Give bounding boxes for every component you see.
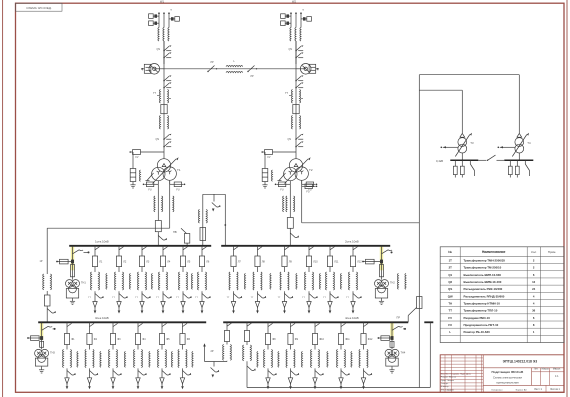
tie disconnector right	[247, 66, 257, 79]
svg-text:Разраб. Иванов: Разраб. Иванов	[441, 377, 457, 379]
svg-text:ЛР: ЛР	[250, 75, 254, 78]
disconnector QS5 W1	[163, 134, 171, 140]
table rows text	[448, 258, 536, 334]
svg-text:Ф10: Ф10	[319, 338, 324, 341]
disconnector QS6 W2	[288, 138, 304, 147]
svg-text:FV: FV	[267, 156, 270, 159]
transfer link bay on bus 2 right	[223, 322, 232, 361]
reserve entry switch	[397, 308, 417, 323]
voltage transformer bay ТН1	[56, 246, 89, 305]
feeder bay Л3 on bus 1	[135, 246, 151, 314]
svg-text:Масса: Масса	[542, 368, 550, 371]
feeder bay Л1 on bus 1	[88, 246, 104, 314]
svg-text:W1: W1	[160, 0, 164, 3]
svg-text:3сек.10кВ: 3сек.10кВ	[95, 316, 109, 320]
svg-text:Утв. Сидоров: Утв. Сидоров	[441, 389, 455, 391]
svg-text:1Т: 1Т	[449, 258, 453, 262]
svg-text:ПВ: ПВ	[173, 230, 177, 234]
top-left stamp box	[16, 3, 63, 11]
svg-text:Q: Q	[317, 67, 319, 71]
feeder bay Ф11 on bus 2	[336, 322, 350, 389]
wire top run to TSN1	[419, 89, 462, 91]
table header	[448, 250, 556, 254]
svg-text:Трансформатор ТМ-250/10: Трансформатор ТМ-250/10	[464, 266, 502, 270]
cable coils upper W2	[285, 90, 303, 104]
tie reactor coils	[226, 60, 243, 73]
svg-text:ТН4: ТН4	[401, 351, 406, 354]
feeder bay Л8 on bus 1	[251, 246, 267, 314]
svg-text:1сек.10кВ: 1сек.10кВ	[95, 240, 109, 244]
LV branch fuses Т2	[275, 180, 318, 191]
series element on riser	[417, 297, 422, 309]
cable CT coils between bays bus2	[77, 352, 352, 368]
busbar stub near title	[424, 321, 433, 323]
wire reserve to bus 2	[429, 322, 431, 387]
highlight PT bay bus2 right	[390, 323, 393, 340]
svg-text:Копировал: Копировал	[492, 390, 504, 392]
neutral grounding resistor W2	[262, 152, 285, 188]
neutral grounding resistor W1	[130, 152, 153, 188]
disconnector QS2 W2	[295, 52, 303, 58]
svg-text:FU: FU	[176, 189, 179, 192]
feeder bay Л11 on bus 1	[323, 246, 339, 314]
svg-text:Q: Q	[141, 67, 143, 71]
0.4kV feeder L1	[453, 160, 457, 177]
svg-text:Трансформатор НТМИ-10: Трансформатор НТМИ-10	[464, 301, 501, 305]
svg-text:FU: FU	[448, 323, 452, 327]
svg-text:ТН2: ТН2	[390, 282, 395, 285]
series element box W1	[161, 105, 167, 114]
feeder bay Л9 on bus 1	[278, 246, 294, 314]
wire riser reserve feed	[418, 75, 420, 388]
busbar section 1 right (10kV)	[221, 240, 390, 246]
bus tie earthing switch	[212, 194, 221, 211]
feeder bay Ф3 on bus 2	[108, 322, 121, 389]
svg-text:ТН: ТН	[448, 301, 452, 305]
wire bottom reserve run	[247, 387, 430, 389]
station service transformer Т3	[441, 133, 475, 161]
svg-text:Пров. Петров: Пров. Петров	[441, 380, 455, 382]
0.4kV feeder L2	[460, 160, 464, 177]
wire station-service feed horizontal	[302, 222, 420, 224]
title block frame	[440, 355, 564, 393]
voltage transformer bay ТН3	[27, 322, 55, 373]
svg-text:ПР: ПР	[397, 317, 401, 320]
svg-text:Н.контр.: Н.контр.	[441, 386, 449, 388]
svg-text:Разъединитель РВЗ-10/400: Разъединитель РВЗ-10/400	[464, 287, 503, 291]
feeder bay Ф10 on bus 2	[310, 322, 324, 389]
svg-text:L: L	[449, 330, 451, 334]
outer frame line right	[566, 0, 568, 397]
svg-text:24: 24	[532, 287, 536, 291]
feeder bay Л5 on bus 1	[176, 246, 192, 314]
svg-text:FU: FU	[306, 191, 309, 194]
svg-text:36: 36	[532, 309, 536, 313]
svg-text:2Р: 2Р	[210, 350, 213, 353]
wire W1 main drop	[163, 41, 165, 64]
svg-text:Предохранитель ПКТ-10: Предохранитель ПКТ-10	[464, 323, 499, 327]
cable CT coils between bays bus1	[106, 274, 406, 290]
svg-text:FU: FU	[148, 189, 151, 192]
svg-text:Q2: Q2	[448, 280, 452, 284]
svg-text:Наименование: Наименование	[482, 250, 506, 254]
0.4kV feeder R1	[508, 160, 512, 177]
cable coils lower W2	[291, 116, 300, 130]
title block signatures	[441, 372, 528, 391]
wire W2 main drop	[295, 41, 297, 64]
wire TSN1 drop	[461, 90, 463, 133]
svg-text:ТТ: ТТ	[448, 309, 452, 313]
svg-text:QS: QS	[156, 138, 160, 141]
wire transfer link horizontal	[47, 227, 170, 229]
feeder bay Ф12 on bus 2	[359, 322, 373, 389]
feeder bay Л7 on bus 1	[227, 246, 243, 314]
right transformer limb to bus section 1	[283, 184, 299, 246]
CT coils W1	[158, 28, 169, 42]
bus tie bridge	[198, 194, 226, 246]
svg-text:1Р: 1Р	[40, 260, 43, 263]
svg-text:Т2: Т2	[309, 168, 313, 172]
incoming line W2 three-phase entry	[281, 12, 312, 27]
svg-text:FU: FU	[280, 189, 283, 192]
highlight PT bay bus1 left	[71, 246, 74, 270]
svg-text:Л10: Л10	[313, 261, 318, 264]
svg-text:ЭПТШ.140212.018 Э3: ЭПТШ.140212.018 Э3	[503, 359, 538, 363]
svg-text:QW: QW	[448, 294, 453, 298]
circuit breaker W1	[141, 64, 164, 75]
transfer switch PV	[173, 228, 190, 246]
disconnector QS3 W2	[295, 75, 303, 81]
svg-text:Прим.: Прим.	[548, 250, 557, 254]
svg-text:СХЕМА ЭЛ.СОЕД.: СХЕМА ЭЛ.СОЕД.	[26, 6, 52, 10]
title block centre text	[492, 368, 532, 386]
svg-text:№: №	[448, 250, 452, 254]
svg-text:1:1: 1:1	[555, 374, 559, 378]
highlight PT bay bus1 right	[380, 246, 383, 270]
svg-text:W2: W2	[292, 0, 296, 3]
svg-text:Лит.: Лит.	[534, 368, 539, 371]
busbar section 1 left (10kV)	[69, 240, 211, 246]
title block right grid	[483, 368, 564, 393]
transfer link (section 3 to 4)	[203, 343, 227, 377]
incoming line W1 labels	[160, 0, 172, 12]
svg-text:QS: QS	[288, 138, 292, 141]
title block header cell	[483, 359, 564, 368]
svg-text:ТН1: ТН1	[81, 282, 86, 285]
0.4kV feeder R3	[525, 160, 529, 176]
disconnector QS2 W1	[163, 52, 171, 58]
incoming line W2 labels	[292, 0, 304, 12]
power transformer Т1 (three-winding)	[152, 157, 181, 183]
wire TSN2 drop	[518, 75, 520, 134]
disconnector QS3 W1	[163, 75, 171, 81]
svg-text:FV: FV	[135, 156, 138, 159]
feeder bay Ф6 on bus 2	[178, 322, 191, 389]
cable coils upper W1	[153, 90, 171, 104]
reserve feed bay on bus 2 right	[243, 322, 256, 387]
LV branch fuses Т1	[143, 180, 186, 191]
svg-text:Т.контр.: Т.контр.	[441, 383, 449, 385]
svg-text:Подстанция 35/10 кВ: Подстанция 35/10 кВ	[492, 370, 524, 374]
svg-text:Масшт.: Масшт.	[553, 368, 561, 371]
svg-text:QS: QS	[157, 48, 161, 51]
series element box W2	[293, 105, 299, 114]
svg-text:4сек.10кВ: 4сек.10кВ	[345, 316, 359, 320]
surge arrester branch W1	[129, 150, 164, 159]
disconnector QS4 W2	[295, 82, 303, 88]
disconnector QS4 W1	[163, 82, 171, 88]
svg-text:0,4кВ: 0,4кВ	[436, 159, 443, 163]
tie disconnector left	[207, 61, 217, 72]
busbar section 2 left	[38, 316, 206, 322]
feeder bay Ф9 on bus 2	[286, 322, 299, 389]
cable coils lower W1	[159, 116, 168, 130]
svg-text:Формат А3: Формат А3	[515, 389, 527, 392]
wire 35kV tie	[164, 68, 296, 70]
incoming line W1 three-phase entry	[149, 12, 180, 27]
svg-text:Лист 1: Лист 1	[534, 387, 542, 391]
feeder bay Ф1 on bus 2	[62, 322, 75, 389]
0.4kV feeder L3	[470, 160, 474, 176]
surge arrester branch W2	[261, 150, 296, 159]
svg-text:Т3: Т3	[470, 141, 474, 145]
bus tie 0.4kV	[478, 155, 504, 161]
svg-text:Л12: Л12	[357, 261, 362, 264]
feeder bay Л10 on bus 1	[302, 246, 318, 314]
outer frame line left	[2, 0, 4, 397]
svg-text:2сек.10кВ: 2сек.10кВ	[345, 240, 359, 244]
svg-text:Разъединитель РЛНД-35/600: Разъединитель РЛНД-35/600	[464, 294, 505, 298]
svg-text:Изм Лист № докум. Подп. Дата: Изм Лист № докум. Подп. Дата	[441, 372, 472, 375]
svg-text:Л11: Л11	[334, 261, 339, 264]
svg-text:Ф12: Ф12	[368, 338, 373, 341]
svg-text:2Т: 2Т	[449, 266, 453, 270]
feeder bay Л6 on bus 1	[195, 246, 211, 314]
feeder bay Ф5 on bus 2	[157, 322, 170, 389]
svg-text:QS: QS	[448, 287, 452, 291]
disconnector QS6 W1	[156, 138, 172, 147]
feeder bay Ф8 on bus 2	[263, 322, 276, 389]
svg-text:FV: FV	[448, 316, 452, 320]
table grid	[440, 247, 564, 343]
feeder bay Ф2 on bus 2	[85, 322, 98, 389]
left transformer limb to bus section 1	[154, 184, 167, 246]
left transformer limb to riser	[170, 181, 174, 228]
riser to bus section 2 left	[40, 228, 56, 322]
power transformer Т2 (three-winding)	[284, 157, 313, 183]
disconnector QS1 W1	[157, 45, 172, 51]
circuit breaker W2	[296, 64, 319, 75]
svg-text:Разрядник РВО-10: Разрядник РВО-10	[464, 316, 491, 320]
highlight PT bay bus2 left	[40, 323, 43, 340]
voltage transformer bay ТН2	[362, 246, 395, 305]
voltage transformer bay ТН4	[378, 322, 407, 373]
svg-text:Кол: Кол	[531, 250, 536, 254]
busbar 0.4kV left	[450, 159, 478, 161]
svg-text:ТН3: ТН3	[50, 351, 55, 354]
disconnector QS5 W2	[295, 134, 303, 140]
wire top run to TSN2	[419, 74, 519, 76]
right transformer limb to station-service feed	[302, 180, 318, 223]
feeder bay Л12 on bus 1	[346, 246, 362, 314]
svg-text:Ф11: Ф11	[345, 338, 350, 341]
svg-text:Схема электрическая: Схема электрическая	[493, 375, 523, 379]
feeder bay Л4 on bus 1	[156, 246, 172, 314]
svg-text:Трансформатор ТПЛ-10: Трансформатор ТПЛ-10	[464, 309, 498, 313]
wire W2 vertical	[295, 41, 297, 159]
svg-text:ЛР: ЛР	[210, 61, 214, 64]
CT coils W2	[290, 28, 301, 42]
feeder bay Л2 on bus 1	[112, 246, 128, 314]
svg-text:Т4: Т4	[527, 141, 531, 145]
svg-text:12: 12	[532, 280, 536, 284]
wire W1 vertical	[163, 41, 165, 159]
svg-text:Выключатель ВММ-10-400: Выключатель ВММ-10-400	[464, 280, 502, 284]
svg-text:Q1: Q1	[448, 273, 452, 277]
svg-text:Выключатель ВМП-10-630: Выключатель ВМП-10-630	[464, 273, 502, 277]
busbar 0.4kV right	[504, 159, 533, 161]
disconnector QS1 W2	[289, 45, 304, 51]
svg-text:Листов 1: Листов 1	[550, 388, 560, 391]
svg-text:принципиальная: принципиальная	[496, 381, 519, 385]
busbar section 2 right	[223, 316, 408, 322]
svg-text:QS: QS	[289, 48, 293, 51]
0.4kV feeder R2	[515, 160, 519, 177]
station service transformer Т4	[498, 133, 532, 161]
title block left grid	[440, 355, 483, 393]
svg-text:Реактор РБ-10-630: Реактор РБ-10-630	[464, 330, 491, 334]
svg-text:Т1: Т1	[177, 168, 181, 172]
feeder bay Ф4 on bus 2	[133, 322, 146, 389]
svg-text:Трансформатор ТМН-2500/35: Трансформатор ТМН-2500/35	[464, 258, 506, 262]
